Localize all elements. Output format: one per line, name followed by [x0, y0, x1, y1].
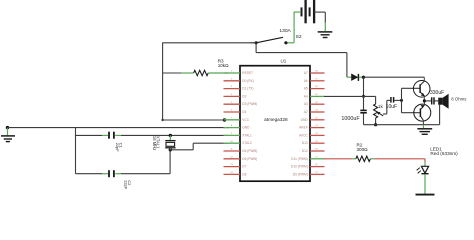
- pin right 3 A5: [304, 86, 325, 90]
- svg-text:D7: D7: [242, 165, 246, 169]
- wire speaker return: [364, 105, 440, 125]
- svg-text:A7: A7: [304, 71, 308, 75]
- svg-text:A2: A2: [304, 110, 308, 114]
- transistor Q2 (bottom): [414, 101, 431, 125]
- svg-text:D0 (RX): D0 (RX): [242, 79, 254, 83]
- wire VCC rail (switch to R3 / VCC pin): [162, 43, 256, 120]
- wire base node vertical: [400, 88, 420, 112]
- junction transistor midpoint: [423, 99, 426, 102]
- pin left 7 VCC: [224, 117, 250, 121]
- svg-text:S2: S2: [296, 34, 302, 40]
- svg-text:A5: A5: [304, 87, 308, 91]
- svg-text:VCC: VCC: [242, 118, 249, 122]
- ground (LED): [416, 194, 435, 196]
- wire C1 row: [76, 134, 229, 136]
- speaker LS1 8 Ohms: [438, 94, 466, 109]
- capacitor 330uF: [424, 90, 444, 105]
- svg-text:D10 (PWM): D10 (PWM): [291, 165, 308, 169]
- svg-text:Red (633nm): Red (633nm): [430, 151, 458, 156]
- wire diode node down to cap/pot node: [362, 77, 365, 110]
- svg-text:22pF: 22pF: [123, 180, 128, 190]
- potentiometer 1k: [374, 104, 384, 126]
- svg-text:1000uF: 1000uF: [341, 116, 360, 122]
- transistor Q1 (top): [413, 77, 430, 101]
- pin right 13 D10 (PWM): [291, 164, 324, 168]
- wire cap branch vertical: [75, 128, 77, 174]
- diode D1: [347, 74, 364, 81]
- pin right 7 GND: [301, 117, 325, 121]
- wire battery right lead to ground: [314, 12, 325, 31]
- ground (left): [1, 126, 15, 142]
- pin left 3 D1 (TX): [224, 86, 254, 90]
- wire LED cathode to ground: [424, 174, 426, 194]
- svg-text:D13: D13: [302, 141, 308, 145]
- pin right 8 AREF: [299, 125, 324, 129]
- svg-text:AVCC: AVCC: [299, 133, 308, 137]
- svg-text:U1: U1: [281, 59, 287, 64]
- svg-text:10uF: 10uF: [386, 104, 397, 110]
- svg-text:D11 (PWM): D11 (PWM): [291, 157, 307, 161]
- pin right 1 A7: [304, 71, 325, 75]
- svg-text:A6: A6: [304, 79, 308, 83]
- pin left 5 D3 (PWM): [224, 102, 258, 106]
- svg-text:D1 (TX): D1 (TX): [242, 87, 253, 91]
- svg-text:8 Ohms: 8 Ohms: [451, 97, 466, 102]
- pin left 14 D8: [224, 172, 247, 176]
- svg-text:330uF: 330uF: [430, 90, 444, 96]
- ground (amplifier): [417, 125, 432, 135]
- svg-text:A4: A4: [304, 94, 308, 98]
- svg-text:300Ω: 300Ω: [357, 147, 369, 152]
- wire VCC feed to VCC pin: [161, 119, 228, 121]
- svg-text:16 MHz: 16 MHz: [152, 136, 157, 150]
- pin left 11 D5 (PWM): [224, 149, 258, 153]
- crystal XTAL1 16 MHz: [152, 134, 176, 152]
- battery BT1: [302, 0, 315, 23]
- pin right 2 A6: [304, 78, 325, 82]
- svg-text:10kΩ: 10kΩ: [218, 63, 229, 68]
- capacitor 10uF: [386, 97, 402, 110]
- wire XTAL2 pin: [170, 143, 228, 150]
- pin left 1 RESET: [224, 71, 253, 75]
- svg-text:D2: D2: [242, 94, 246, 98]
- pin left 12 D6 (PWM): [224, 156, 258, 160]
- svg-text:D9 (PWM): D9 (PWM): [293, 172, 308, 176]
- wire A4 pin to pot: [324, 96, 376, 104]
- capacitor 1000uF: [341, 110, 366, 124]
- wire C2 row: [76, 150, 171, 174]
- pin left 10 XTAL2: [224, 141, 253, 145]
- capacitor C2 22pF: [109, 170, 132, 190]
- wire ground rail to GND pin: [8, 127, 229, 129]
- pin right 4 A4: [304, 94, 325, 98]
- pin right 14 D9 (PWM): [293, 172, 325, 176]
- wire battery left lead to switch: [286, 12, 301, 43]
- svg-text:D8: D8: [242, 172, 246, 176]
- resistor R3 10k pull-up: [182, 58, 229, 75]
- wire D11 pin to R2 (ratsnest): [324, 158, 356, 160]
- svg-text:130A: 130A: [279, 28, 291, 34]
- pin right 6 A2: [304, 110, 325, 114]
- svg-text:atmega328: atmega328: [264, 117, 288, 122]
- svg-text:AREF: AREF: [299, 126, 308, 130]
- wire pot wiper to 10uF: [383, 100, 390, 114]
- pin right 11 D12: [302, 149, 325, 153]
- switch S2: [251, 28, 302, 45]
- resistor R2 300 ohm: [356, 143, 374, 162]
- pin left 13 D7: [224, 164, 247, 168]
- wire switch to diode: [256, 43, 347, 77]
- svg-text:D5 (PWM): D5 (PWM): [242, 149, 257, 153]
- pin left 4 D2: [224, 94, 247, 98]
- svg-text:1k: 1k: [378, 104, 384, 109]
- svg-text:D6 (PWM): D6 (PWM): [242, 157, 257, 161]
- svg-text:D4: D4: [242, 110, 246, 114]
- pin right 10 D13: [302, 141, 325, 145]
- LED1 Red (633nm): [416, 147, 458, 174]
- capacitor C1 22pF: [109, 132, 124, 153]
- svg-text:GND: GND: [301, 118, 309, 122]
- pin left 6 D4: [224, 110, 247, 114]
- svg-text:D3 (PWM): D3 (PWM): [242, 102, 257, 106]
- svg-text:GND: GND: [242, 126, 250, 130]
- wire diode rail to transistor collector: [362, 76, 424, 79]
- pin right 5 A3: [304, 102, 325, 106]
- svg-text:XTAL1: XTAL1: [242, 133, 252, 137]
- svg-text:RESET: RESET: [242, 71, 253, 75]
- pin right 9 AVCC: [299, 133, 324, 137]
- svg-text:A3: A3: [304, 102, 308, 106]
- svg-text:22pF: 22pF: [115, 143, 120, 153]
- junction VCC pin: [223, 118, 226, 121]
- op IC U1 atmega328: [240, 59, 310, 182]
- svg-text:XTAL2: XTAL2: [242, 141, 252, 145]
- wire R2 to LED (ratsnest): [374, 159, 425, 167]
- svg-text:D12: D12: [302, 149, 308, 153]
- pin left 2 D0 (RX): [224, 78, 254, 82]
- ground (battery): [318, 32, 333, 38]
- pin right 12 D11 (PWM): [291, 156, 324, 160]
- pin left 8 GND: [224, 125, 251, 129]
- pin left 9 XTAL1: [224, 133, 253, 137]
